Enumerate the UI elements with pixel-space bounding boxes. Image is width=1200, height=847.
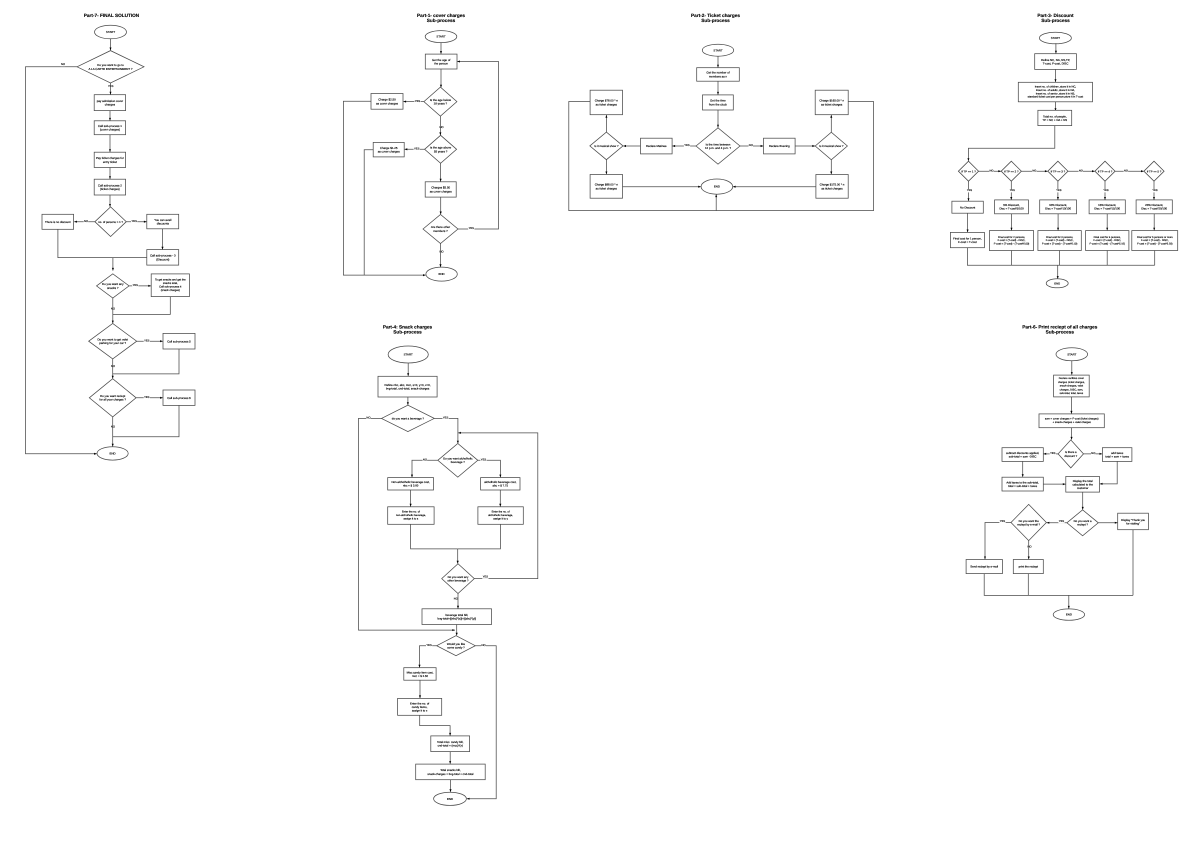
- wire D3 YES loop P1: [457, 61, 498, 230]
- svg-text:Total no. of people,TP = NC +: Total no. of people,TP = NC + NA + NS: [1042, 114, 1067, 122]
- process box call sub-process 5 P7: [163, 333, 195, 349]
- process box beverage total P4: [422, 609, 492, 625]
- svg-text:YES: YES: [967, 189, 972, 192]
- process box charge 165 P2: [815, 90, 848, 115]
- start ellipse P2: [702, 44, 733, 56]
- svg-text:Get the number ofmembers as n: Get the number ofmembers as n: [706, 71, 729, 79]
- wire NO loop left P7: [26, 67, 97, 455]
- process box final cost 1 P3: [950, 232, 984, 247]
- svg-text:Charge $1.25as cover charges: Charge $1.25as cover charges: [378, 146, 401, 154]
- wire D3 YES loop up P4: [458, 432, 538, 579]
- process box charge 1.25 P1: [373, 142, 404, 157]
- wire define->D1 P4: [407, 397, 409, 405]
- decision Dc P2 (time between 12 and 4?): [696, 128, 740, 164]
- wire print->bus P6: [1027, 574, 1029, 596]
- wire no-discount->merge P7: [58, 229, 147, 257]
- wire D3 YES left P6: [984, 523, 1011, 560]
- svg-text:No Discount: No Discount: [960, 205, 975, 209]
- label NO Dc P2: [749, 144, 754, 147]
- wire addtaxes->display P6: [1100, 461, 1117, 485]
- svg-text:Get the timefrom the clock: Get the timefrom the clock: [709, 99, 728, 107]
- process box total people P3: [1038, 110, 1072, 125]
- title Part-2: [691, 13, 740, 23]
- svg-text:YES: YES: [133, 284, 139, 287]
- wire send->bus P6: [984, 574, 1133, 596]
- process box charge 175 P2: [816, 175, 848, 199]
- process box charges 5.50 P1: [425, 182, 456, 197]
- svg-text:YES: YES: [483, 576, 489, 579]
- title Part-3: [1037, 13, 1074, 23]
- wire C1->bus P3: [967, 248, 1154, 266]
- wire D2->D3 P3: [1021, 170, 1047, 172]
- wire outer loop P2: [569, 102, 874, 211]
- label YES D1 P4: [443, 416, 449, 419]
- svg-text:YES: YES: [144, 396, 150, 399]
- wire bottom->end P2: [715, 194, 717, 210]
- process box total snacks P4: [416, 764, 486, 780]
- wire C2->bus P3: [1011, 251, 1013, 266]
- svg-text:NO: NO: [1079, 169, 1083, 172]
- wire bus->end P6: [1068, 595, 1070, 608]
- process box get age P1: [425, 54, 457, 69]
- process box there is no discount P7: [42, 214, 74, 229]
- wire D4 NO down P7: [112, 359, 114, 379]
- label YES D2 P7: [131, 220, 137, 223]
- svg-text:Do you want thereciept by e-ma: Do you want thereciept by e-mail ?: [1017, 519, 1040, 527]
- wire box3->box4 P7: [109, 168, 111, 180]
- process box insert values P3: [1018, 82, 1092, 102]
- start ellipse P1: [425, 31, 457, 43]
- svg-text:Call sub-process 2(ticket char: Call sub-process 2(ticket charges): [98, 183, 122, 191]
- label YES D4 P7: [144, 339, 150, 342]
- label NO D2 P4: [423, 458, 428, 461]
- decision D2 P1 (age above 55?): [425, 135, 457, 163]
- svg-text:YES: YES: [684, 144, 690, 147]
- svg-text:Do you want to get valetparkin: Do you want to get valetparking for your…: [97, 337, 128, 345]
- svg-text:Charges $5.50as cover charges: Charges $5.50as cover charges: [430, 186, 453, 194]
- process box call sub-process 1 P7: [94, 121, 125, 135]
- wire Dc NO right P2: [740, 145, 763, 147]
- wire abc->enter y P4: [499, 490, 501, 507]
- decision D3 P4 (any other beverage?): [442, 564, 475, 594]
- wire start->D1 P7: [110, 39, 112, 50]
- end ellipse P3: [1046, 279, 1068, 288]
- label NO D3 P6: [1027, 546, 1032, 549]
- svg-text:Get the age ofthe person: Get the age ofthe person: [432, 58, 451, 66]
- label YES D1 P6: [1050, 452, 1056, 455]
- label NO D4-D5 P3: [1124, 169, 1128, 172]
- svg-text:Final cost for 4 persons,F-cos: Final cost for 4 persons,F-cost = (T-cos…: [1089, 236, 1125, 245]
- decision D5 P7 (want receipt?): [89, 379, 136, 417]
- wire box4->D2 P7: [109, 195, 111, 207]
- wire D2 right->thankyou P6: [1098, 522, 1117, 524]
- svg-text:no. of persons > 1 ?: no. of persons > 1 ?: [98, 220, 123, 224]
- wire B3->C3 P3: [1057, 214, 1059, 231]
- label YES D3 P4: [482, 576, 488, 579]
- process box define vars P4: [378, 376, 437, 397]
- wire agebox->D1 P1: [440, 69, 442, 87]
- svg-text:YES: YES: [1103, 189, 1108, 192]
- svg-text:YES: YES: [1152, 189, 1157, 192]
- process box final cost 5 P3: [1132, 231, 1178, 251]
- process box pay ticket charges P7: [94, 152, 125, 167]
- process box enter non-alcoholic count P4: [388, 507, 434, 525]
- wire D4->D5 P3: [1115, 170, 1144, 172]
- wire total->D1 P3: [967, 126, 1054, 161]
- wire timebox->Dc P2: [717, 110, 719, 128]
- process box define vars P3: [1035, 54, 1077, 70]
- process box get number of members P2: [697, 68, 740, 82]
- wire D2 NO left P4: [411, 460, 438, 477]
- svg-text:Declare varibles covercharges: Declare varibles covercharges ,ticket ch…: [1058, 377, 1085, 395]
- svg-text:Declare Matinee: Declare Matinee: [646, 144, 667, 148]
- label YES D5 P7: [144, 396, 150, 399]
- decision DL P2 (is it musical show?): [590, 132, 623, 160]
- svg-text:Call sub-process 1(cover charg: Call sub-process 1(cover charges): [98, 124, 122, 132]
- svg-text:Enter the no. ofcandy items,as: Enter the no. ofcandy items,assign it to…: [410, 701, 429, 712]
- svg-text:Charge $2.50as cover charges: Charge $2.50as cover charges: [376, 98, 399, 106]
- process box declare evening P2: [764, 138, 796, 154]
- svg-text:If TP == 4 ?: If TP == 4 ?: [1098, 169, 1113, 173]
- process box pay admission P7: [94, 95, 125, 111]
- process box charge 88 P2: [590, 175, 622, 199]
- wire D1->box1 P7: [110, 83, 112, 95]
- process box non-alcoholic cost P4: [388, 478, 434, 490]
- svg-text:YES: YES: [132, 220, 138, 223]
- svg-text:Final cost for 3 persons,F-cos: Final cost for 3 persons,F-cost = (T-cos…: [1042, 236, 1078, 245]
- wire C3->bus P3: [1059, 251, 1061, 266]
- label NO D1 P7: [61, 63, 65, 66]
- svg-text:Are there othermembers ?: Are there othermembers ?: [431, 225, 450, 233]
- label NO D3 P1: [439, 250, 444, 253]
- wire D5 YES down P3: [1153, 181, 1155, 200]
- wire display->D2 P6: [1082, 492, 1084, 510]
- decision D2 P7 (no. of persons > 1?): [95, 207, 126, 237]
- start ellipse P6: [1056, 348, 1088, 361]
- process box send receipt email P6: [966, 560, 1002, 574]
- label NO D3 P7: [111, 308, 116, 311]
- wire bus->end P3: [1057, 265, 1059, 279]
- svg-text:NO: NO: [366, 417, 370, 420]
- process box add taxes P6: [1102, 448, 1132, 462]
- svg-text:NO: NO: [481, 644, 485, 647]
- label YES D3 P1: [468, 227, 474, 230]
- title Part-4: [383, 324, 433, 334]
- svg-text:END: END: [1066, 613, 1072, 617]
- process box no discount P3: [952, 201, 983, 213]
- label NO D4 P7: [111, 365, 116, 368]
- wire D1->D2 P3: [979, 170, 1001, 172]
- decision D4 P3 (TP==4?): [1095, 161, 1115, 181]
- label YES D4 P4: [426, 644, 432, 647]
- wire C4->bus P3: [1106, 251, 1108, 266]
- wire BL->end P2: [623, 186, 701, 188]
- label YES D3 P3: [1056, 189, 1062, 192]
- wire evening->DR P2: [795, 145, 815, 147]
- svg-text:If TP == 1 ?: If TP == 1 ?: [961, 169, 976, 173]
- svg-text:START: START: [436, 35, 445, 39]
- svg-text:If TP == 2 ?: If TP == 2 ?: [1004, 169, 1019, 173]
- wire D3 YES right P7: [129, 285, 151, 287]
- decision D3 P6 (receipt by e-mail?): [1011, 504, 1046, 540]
- wire D3 NO down P6: [1028, 541, 1030, 560]
- decision D4 P7 (valet parking?): [89, 324, 137, 359]
- label YES D5 P3: [1152, 189, 1158, 192]
- label NO D4 P4: [481, 644, 486, 647]
- svg-text:Is it musical show ?: Is it musical show ?: [819, 144, 844, 148]
- wire D1 NO right P6: [1084, 453, 1103, 455]
- svg-text:Send reciept by e-mail: Send reciept by e-mail: [970, 565, 998, 569]
- label NO D3 P4: [454, 597, 459, 600]
- svg-text:YES: YES: [1056, 189, 1061, 192]
- wire merge->D3 P4: [457, 549, 459, 564]
- title Part-7: [84, 13, 140, 18]
- label NO D1 P1: [439, 126, 444, 129]
- decision D2 P4 (alcoholic beverage?): [438, 444, 478, 478]
- svg-text:Would you likesome candy ?: Would you likesome candy ?: [447, 642, 466, 650]
- svg-text:Do you want anyother beverage: Do you want anyother beverage ?: [447, 575, 469, 583]
- svg-text:subtract discounts applied,sub: subtract discounts applied,sub-total = s…: [1006, 451, 1039, 459]
- wire thankyou->bus P6: [1132, 530, 1134, 596]
- wire D4 YES left P4: [418, 646, 436, 668]
- wire D4 NO right->end P4: [467, 646, 496, 800]
- wire D3 NO down P1: [439, 244, 441, 268]
- svg-text:NO: NO: [1027, 546, 1031, 549]
- wire D2 YES down P3: [1010, 181, 1012, 200]
- label YES Dc P2: [684, 144, 690, 147]
- process box alcoholic cost P4: [481, 478, 520, 490]
- decision D4 P4 (like some candy?): [437, 636, 476, 656]
- svg-text:If TP == 5 ?: If TP == 5 ?: [1147, 169, 1162, 173]
- svg-text:NO: NO: [1091, 452, 1095, 455]
- end ellipse P2: [701, 179, 733, 194]
- process box 15% discount P3: [1089, 200, 1125, 214]
- wire DR down->BRbox P2: [830, 160, 832, 174]
- decision D5 P3 (TP==5?): [1144, 161, 1164, 181]
- svg-text:YES: YES: [415, 100, 421, 103]
- process box call sub-process 6 P7: [163, 390, 195, 405]
- svg-text:Call sub-process 5: Call sub-process 5: [167, 339, 191, 343]
- wire D1 YES right-down P4: [434, 418, 459, 443]
- svg-text:print the reciept: print the reciept: [1019, 565, 1039, 569]
- process box 5% discount P3: [995, 200, 1029, 214]
- wire snackbox->merge P7: [113, 297, 171, 315]
- decision D1 P6 (is there a discount?): [1058, 440, 1083, 468]
- wire D2 NO left P7: [74, 221, 95, 223]
- svg-text:YES: YES: [1059, 520, 1065, 523]
- wire start->members box P2: [717, 56, 719, 67]
- svg-text:Charge $165.00 * nas ticket c: Charge $165.00 * nas ticket charges: [819, 99, 844, 107]
- svg-text:NO: NO: [1032, 169, 1036, 172]
- svg-text:Part-3- DiscountSub-process: Part-3- DiscountSub-process: [1037, 13, 1074, 23]
- process box misc candy cost P4: [404, 668, 436, 681]
- label NO D1 P4: [366, 416, 371, 419]
- wire D3->D4 P3: [1068, 170, 1095, 172]
- wire D3 NO down P4: [457, 594, 459, 609]
- svg-text:Is it musical show ?: Is it musical show ?: [594, 144, 619, 148]
- process box subtract discounts P6: [1002, 448, 1043, 462]
- svg-text:Total misc. candy bill,cnd-tot: Total misc. candy bill,cnd-total = (mcc)…: [437, 740, 464, 748]
- svg-text:NO: NO: [84, 220, 88, 223]
- decision D3 P1 (other members?): [423, 215, 458, 244]
- label YES D2 P1: [414, 147, 420, 150]
- wire D4 YES down P3: [1104, 181, 1106, 200]
- start ellipse P4: [388, 346, 428, 363]
- svg-text:Charge $78.00 * nas ticket ch: Charge $78.00 * nas ticket charges: [595, 99, 619, 107]
- wire D1 YES down P3: [968, 181, 970, 201]
- decision D1 P4 (want a beverage?): [382, 405, 435, 431]
- wire start->age box P1: [440, 43, 442, 54]
- end ellipse P6: [1053, 609, 1084, 620]
- svg-text:YES: YES: [469, 227, 475, 230]
- svg-text:YES: YES: [144, 339, 150, 342]
- label YES D2 P3: [1009, 189, 1015, 192]
- wire start->declare P6: [1071, 361, 1073, 375]
- process box you can avail discounts P7: [147, 214, 179, 229]
- wire start->define box P3: [1055, 43, 1057, 53]
- wire define->insert box P3: [1055, 69, 1057, 82]
- decision D1 P3 (TP==1?): [958, 161, 978, 181]
- wire D1 NO loop P4: [359, 418, 456, 631]
- svg-text:sum = cover charges + F-cost (: sum = cover charges + F-cost (ticket cha…: [1045, 418, 1099, 424]
- svg-text:Declare Evening: Declare Evening: [769, 144, 790, 148]
- wire bvg->D4 P4: [456, 625, 458, 636]
- wire D4 YES right P7: [137, 340, 163, 342]
- start ellipse P3: [1039, 32, 1071, 44]
- svg-text:Add taxes to the sub-total,tot: Add taxes to the sub-total,total = sub-t…: [1006, 480, 1039, 488]
- decision D3 P7 (want any snacks?): [97, 274, 130, 298]
- decision D1 P7 (go to a la carte?): [77, 51, 144, 83]
- svg-text:YES: YES: [426, 644, 432, 647]
- svg-text:NO: NO: [989, 169, 993, 172]
- wire D2 YES right P4: [478, 460, 502, 477]
- wire declare->sum P6: [1070, 397, 1072, 414]
- svg-text:YES: YES: [414, 148, 420, 151]
- wire box6->merge P7: [113, 405, 179, 436]
- label YES D3 P6: [999, 520, 1005, 523]
- label NO D2 P7: [84, 220, 89, 223]
- title Part-1: [417, 13, 465, 23]
- title Part-6: [1022, 324, 1097, 334]
- process box enter candy count P4: [398, 698, 442, 715]
- svg-text:If TP == 3 ?: If TP == 3 ?: [1051, 169, 1066, 173]
- wire DR up->TRbox P2: [830, 115, 832, 132]
- wire nbc->enter s P4: [410, 490, 412, 507]
- wire DL down->BLbox P2: [605, 160, 607, 175]
- process box final cost 3 P3: [1038, 231, 1081, 251]
- svg-text:NO: NO: [439, 251, 443, 254]
- wire merge->D3 P7: [112, 258, 114, 271]
- wire D1 YES left P1: [403, 101, 424, 103]
- label YES D1 P1: [414, 100, 420, 103]
- process box declare matinee P2: [641, 138, 673, 154]
- wire enter-z->candy total P4: [420, 715, 452, 735]
- wire D2 YES left P6: [1047, 522, 1067, 524]
- decision D3 P3 (TP==3?): [1048, 161, 1068, 181]
- process box call sub-process 3 P7: [147, 250, 179, 266]
- svg-text:Final cost for 2 persons,F-cos: Final cost for 2 persons,F-cost = (T-cos…: [994, 236, 1030, 245]
- svg-text:END: END: [439, 272, 445, 276]
- wire sum->D1 P6: [1071, 428, 1073, 440]
- process box call sub-process 2 P7: [94, 179, 125, 195]
- svg-text:END: END: [714, 185, 720, 189]
- label NO D3-D4 P3: [1079, 169, 1083, 172]
- svg-text:Part-7- FINAL SOLUTION: Part-7- FINAL SOLUTION: [84, 13, 140, 18]
- label NO D5 P7: [111, 425, 116, 428]
- wire box2->box3 P7: [109, 135, 111, 152]
- wire D5 YES right P7: [136, 397, 163, 399]
- wire D1 NO down P1: [439, 116, 441, 135]
- wire DL up->TLbox P2: [605, 115, 607, 132]
- process box get snacks P7: [151, 274, 189, 297]
- wire D3 YES down P3: [1057, 181, 1059, 200]
- wire candy total->snack total P4: [449, 752, 451, 764]
- svg-text:END: END: [447, 797, 453, 801]
- svg-text:Charge $175.00 * nas ticket c: Charge $175.00 * nas ticket charges: [820, 183, 845, 191]
- wire D5 NO down P7: [112, 417, 114, 447]
- decision DR P2 (is it musical show?): [815, 132, 847, 160]
- svg-text:There is no discount: There is no discount: [45, 220, 71, 224]
- wire avail->sub3 P7: [161, 229, 163, 250]
- svg-text:Is there adiscount ?: Is there adiscount ?: [1064, 450, 1077, 458]
- svg-text:NO: NO: [454, 597, 458, 600]
- wire charge250->end P1: [343, 101, 425, 276]
- wire box1->box2 P7: [109, 111, 111, 121]
- wire box5->merge P7: [113, 349, 179, 374]
- svg-text:START: START: [404, 353, 413, 357]
- label YES D1 P3: [967, 189, 973, 192]
- wire B1->C1 P3: [967, 213, 969, 232]
- wire snack total->end P4: [449, 780, 451, 792]
- label YES D3 P7: [132, 284, 138, 287]
- label NO D1-D2 P3: [989, 169, 993, 172]
- wire matinee->DL P2: [623, 145, 640, 147]
- end ellipse P4: [434, 792, 467, 805]
- process box enter alcoholic count P4: [478, 507, 523, 525]
- end ellipse P7: [97, 447, 128, 460]
- label YES D2 P4: [480, 458, 486, 461]
- start ellipse P7: [95, 25, 127, 39]
- process box candy total P4: [431, 736, 470, 752]
- svg-text:NO: NO: [749, 144, 753, 147]
- wire C5->bus P3: [1154, 251, 1156, 266]
- svg-text:NO: NO: [1124, 169, 1128, 172]
- wire addtaxes2->display P6: [1043, 483, 1065, 485]
- process box charge 2.50 P1: [371, 94, 403, 110]
- wire B5->C5 P3: [1153, 214, 1155, 231]
- process box add taxes to subtotal P6: [1002, 477, 1043, 491]
- decision D1 P1 (age below 18?): [424, 87, 457, 116]
- wire members->time box P2: [717, 81, 719, 94]
- wire subtract->addtaxes2 P6: [1022, 461, 1024, 477]
- svg-text:NO: NO: [423, 459, 427, 462]
- svg-text:YES: YES: [1050, 452, 1056, 455]
- process box final cost 4 P3: [1086, 231, 1129, 251]
- wire mcc->enter z P4: [419, 680, 421, 698]
- svg-text:Is the time between12 p.m. and: Is the time between12 p.m. and 4 p.m. ?: [705, 142, 732, 150]
- process box print receipt P6: [1013, 560, 1043, 574]
- wire BR->end P2: [733, 186, 816, 188]
- svg-text:END: END: [110, 452, 116, 456]
- svg-text:END: END: [1054, 281, 1060, 285]
- process box declare variables P6: [1054, 375, 1090, 397]
- svg-text:Charge $88.00 * nas ticket ch: Charge $88.00 * nas ticket charges: [595, 183, 619, 191]
- svg-text:START: START: [106, 30, 115, 34]
- label YES D1 P7: [108, 85, 114, 88]
- wire D2 NO down P1: [440, 163, 442, 181]
- process box 20% discount P3: [1136, 200, 1172, 214]
- svg-text:NO: NO: [61, 63, 65, 66]
